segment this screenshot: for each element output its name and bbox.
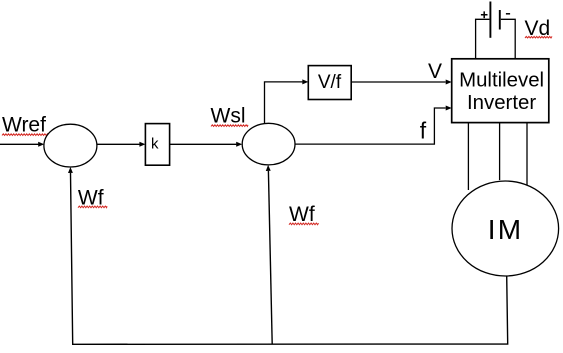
wire IM feedback to S1 xyxy=(68,167,508,344)
block U1 Multilevel Inverter xyxy=(452,59,549,123)
wire feedback branch to S2 xyxy=(266,165,272,344)
svg-text:IM: IM xyxy=(488,214,524,245)
node Wref label xyxy=(2,114,48,137)
svg-text:V/f: V/f xyxy=(318,72,342,93)
wire V/f to inverter xyxy=(351,80,452,85)
node Wf label 2 xyxy=(289,203,319,226)
motor IM xyxy=(452,181,559,276)
wire S1 to k xyxy=(97,142,145,147)
battery Vd xyxy=(476,2,516,59)
node Vd label xyxy=(525,17,553,40)
wire S2 to inverter f input xyxy=(295,106,452,145)
block V/f xyxy=(308,66,351,100)
wire Wref input xyxy=(0,142,44,147)
node Wsl label xyxy=(211,105,249,128)
svg-text:f: f xyxy=(420,117,427,143)
svg-text:Multilevel: Multilevel xyxy=(459,70,544,92)
wire k to S2 xyxy=(170,142,243,147)
node Wf label 1 xyxy=(78,186,107,209)
svg-text:k: k xyxy=(151,135,159,152)
wire S2 to V/f xyxy=(265,79,309,123)
summing junction S2 xyxy=(242,123,295,165)
wire inverter to IM phase B xyxy=(499,123,501,180)
wire inverter to IM phase C xyxy=(526,123,528,193)
wire inverter to IM phase A xyxy=(467,123,469,190)
svg-text:V: V xyxy=(428,60,442,83)
svg-text:Inverter: Inverter xyxy=(467,92,536,114)
gain block k xyxy=(145,124,169,166)
summing junction S1 xyxy=(44,124,97,167)
